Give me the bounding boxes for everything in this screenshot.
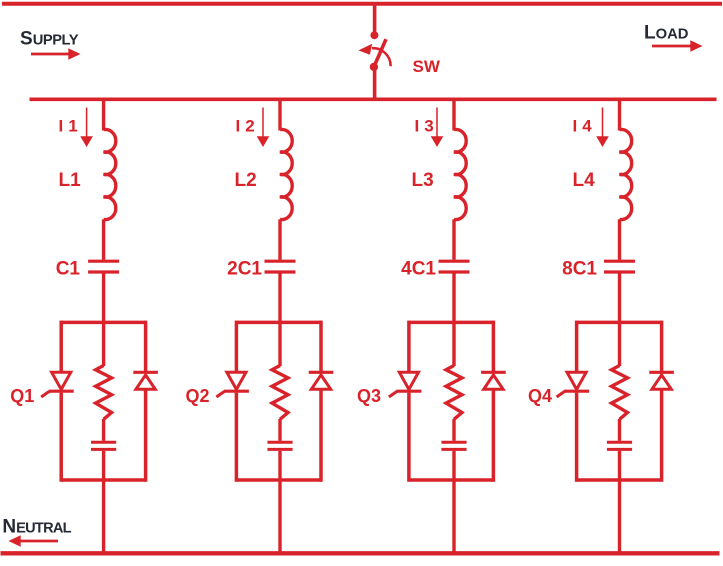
wire box top to resistor	[278, 322, 281, 366]
current I3 arrow	[431, 108, 444, 148]
wire box left bottom segment	[575, 393, 579, 482]
wire box top to resistor	[452, 322, 455, 366]
svg-text:Q2: Q2	[186, 386, 210, 406]
capacitor (damping, in box)	[91, 441, 116, 444]
wire box right bottom segment	[319, 389, 323, 481]
wire box right top segment	[144, 321, 148, 373]
diode (antiparallel)	[133, 371, 158, 374]
switch SW top contact	[370, 31, 378, 39]
wire top supply bus	[2, 2, 722, 6]
wire bus to L2	[278, 99, 281, 130]
svg-text:I: I	[415, 117, 420, 136]
capacitor 4C1	[439, 260, 470, 263]
wire bus to L4	[618, 99, 621, 130]
wire box left top segment	[59, 321, 63, 371]
supply direction arrow	[31, 48, 81, 60]
wire damping network box bottom	[236, 478, 321, 482]
wire capacitor to damping box	[102, 274, 105, 323]
wire from top bus to switch	[373, 4, 377, 32]
thyristor Q2 gate	[216, 391, 224, 397]
wire from switch to second bus	[373, 67, 377, 99]
wire L2 to capacitor	[278, 219, 281, 259]
wire bottom neutral bus	[1, 551, 720, 555]
svg-text:1: 1	[68, 117, 77, 136]
wire damping network box top	[61, 321, 145, 325]
svg-text:2C1: 2C1	[227, 259, 262, 280]
wire box left bottom segment	[407, 393, 411, 482]
wire box left bottom segment	[235, 393, 239, 482]
capacitor 8C1	[604, 260, 635, 263]
diode (antiparallel)	[649, 371, 674, 374]
thyristor Q1	[52, 372, 71, 389]
inductor L4	[620, 129, 632, 219]
wire resistor to box capacitor	[102, 419, 105, 441]
svg-text:LOAD: LOAD	[644, 23, 689, 44]
thyristor Q4 gate	[557, 391, 565, 397]
wire box right bottom segment	[492, 389, 496, 481]
capacitor (damping, in box)	[441, 441, 466, 444]
svg-text:I: I	[573, 117, 578, 136]
wire capacitor to damping box	[452, 274, 455, 323]
capacitor (damping, in box)	[267, 441, 292, 444]
wire box right bottom segment	[660, 389, 664, 481]
wire box right top segment	[492, 321, 496, 373]
current I1 arrow	[80, 108, 93, 148]
wire resistor to box capacitor	[278, 419, 281, 441]
svg-text:NEUTRAL: NEUTRAL	[2, 517, 71, 538]
thyristor Q1 gate	[41, 391, 49, 397]
wire damping network box top	[409, 321, 494, 325]
wire capacitor to damping box	[618, 274, 621, 323]
wire box right bottom segment	[144, 389, 148, 481]
svg-text:Q1: Q1	[10, 386, 34, 406]
svg-text:8C1: 8C1	[562, 259, 597, 280]
wire L1 to capacitor	[102, 219, 105, 259]
svg-text:SW: SW	[413, 57, 441, 76]
svg-text:Q3: Q3	[357, 386, 381, 406]
inductor L1	[104, 129, 116, 219]
wire box top to resistor	[618, 322, 621, 366]
wire L3 to capacitor	[452, 219, 455, 259]
resistor (damping)	[272, 366, 288, 420]
resistor (damping)	[612, 366, 628, 420]
svg-text:I: I	[236, 117, 241, 136]
svg-text:L3: L3	[412, 170, 434, 191]
thyristor Q3	[399, 372, 418, 389]
wire box left top segment	[235, 321, 239, 371]
wire bus to L3	[452, 99, 455, 130]
svg-text:3: 3	[424, 117, 433, 136]
wire second bus (load side)	[30, 98, 717, 102]
wire bus to L1	[102, 99, 105, 130]
diode (antiparallel)	[309, 371, 334, 374]
diode (antiparallel)	[481, 371, 506, 374]
switch SW blade	[374, 39, 386, 67]
svg-text:L4: L4	[573, 170, 596, 191]
wire box capacitor to bottom bus	[102, 451, 105, 554]
svg-text:4C1: 4C1	[401, 259, 436, 280]
wire box left bottom segment	[59, 393, 63, 482]
inductor L2	[280, 129, 292, 219]
wire box right top segment	[660, 321, 664, 373]
thyristor Q3 gate	[389, 391, 397, 397]
switch SW opening arc arrow	[372, 48, 391, 66]
wire box capacitor to bottom bus	[278, 451, 281, 554]
capacitor (damping, in box)	[607, 441, 632, 444]
svg-text:L1: L1	[59, 170, 82, 191]
wire damping network box top	[577, 321, 662, 325]
wire box right top segment	[319, 321, 323, 373]
switch SW bottom contact	[370, 63, 378, 71]
wire damping network box top	[236, 321, 321, 325]
wire damping network box bottom	[61, 478, 145, 482]
svg-text:SUPPLY: SUPPLY	[20, 29, 79, 50]
load direction arrow	[652, 40, 703, 52]
resistor (damping)	[96, 366, 112, 420]
wire capacitor to damping box	[278, 274, 281, 323]
wire box capacitor to bottom bus	[452, 451, 455, 554]
svg-text:Q4: Q4	[528, 386, 552, 406]
neutral direction arrow	[9, 535, 59, 547]
resistor (damping)	[446, 366, 462, 420]
svg-text:2: 2	[245, 117, 254, 136]
svg-text:L2: L2	[235, 170, 257, 191]
current I2 arrow	[257, 108, 270, 148]
wire box capacitor to bottom bus	[618, 451, 621, 554]
wire box top to resistor	[102, 322, 105, 366]
current I4 arrow	[596, 108, 609, 148]
wire damping network box bottom	[577, 478, 662, 482]
svg-text:C1: C1	[56, 259, 81, 280]
svg-text:I: I	[59, 117, 64, 136]
wire box left top segment	[575, 321, 579, 371]
thyristor Q2	[227, 372, 246, 389]
capacitor 2C1	[265, 260, 296, 263]
thyristor Q4	[567, 372, 586, 389]
inductor L3	[454, 129, 466, 219]
wire L4 to capacitor	[618, 219, 621, 259]
wire resistor to box capacitor	[618, 419, 621, 441]
wire resistor to box capacitor	[452, 419, 455, 441]
svg-text:4: 4	[582, 117, 592, 136]
wire damping network box bottom	[409, 478, 494, 482]
capacitor C1	[88, 260, 119, 263]
wire box left top segment	[407, 321, 411, 371]
